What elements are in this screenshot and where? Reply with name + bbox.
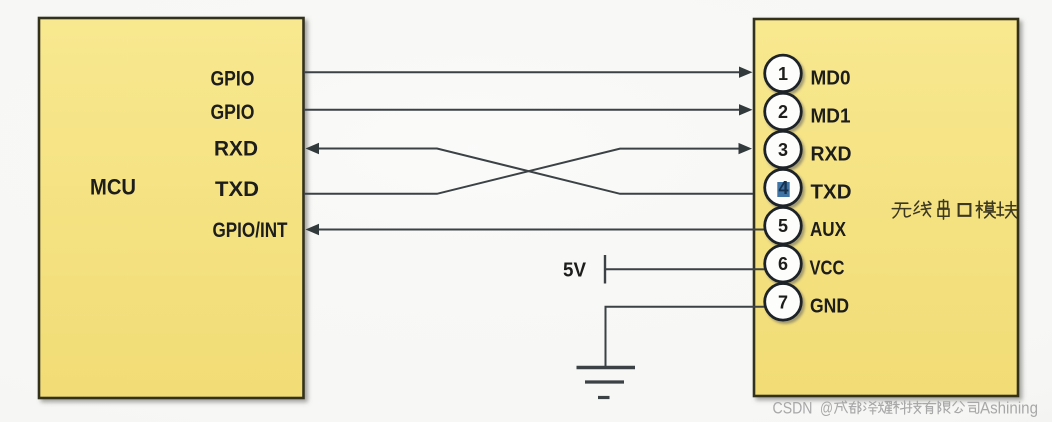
wire GPIO to MD0 xyxy=(304,67,753,78)
hanzi 泽 xyxy=(864,402,878,414)
pin 4 circle (digit shown text-selected blue) xyxy=(765,169,802,206)
svg-text:VCC: VCC xyxy=(810,257,845,279)
svg-text:3: 3 xyxy=(778,140,788,160)
svg-text:GPIO/INT: GPIO/INT xyxy=(213,219,288,242)
svg-text:TXD: TXD xyxy=(811,182,852,204)
svg-text:MD0: MD0 xyxy=(811,67,851,89)
svg-text:7: 7 xyxy=(778,292,788,312)
wire MCU TXD to module RXD (crossover) xyxy=(304,143,752,194)
module title 无线串口模块 (hand-drawn glyphs) xyxy=(892,200,1016,220)
svg-text:5: 5 xyxy=(778,216,788,236)
svg-text:AUX: AUX xyxy=(810,219,847,241)
pin 3 circle xyxy=(765,131,802,168)
svg-text:MD1: MD1 xyxy=(811,106,851,128)
wireless serial module block xyxy=(754,19,1018,396)
wire 5V to VCC xyxy=(605,268,765,270)
svg-text:Ashining: Ashining xyxy=(980,400,1038,418)
hanzi 耀 xyxy=(879,402,893,414)
hanzi 块 xyxy=(997,202,1017,218)
svg-text:4: 4 xyxy=(778,178,788,198)
svg-text:2: 2 xyxy=(778,102,788,122)
pin 1 circle xyxy=(765,55,802,92)
hanzi 司 xyxy=(968,402,979,413)
5V supply bar xyxy=(604,255,606,284)
svg-text:GPIO: GPIO xyxy=(211,101,255,124)
ground symbol xyxy=(577,368,636,398)
pin 7 circle xyxy=(765,284,802,321)
hanzi 都 xyxy=(849,401,861,414)
hanzi 技 xyxy=(908,401,922,413)
svg-text:GPIO: GPIO xyxy=(211,68,255,91)
watermark CSDN @... (gray) xyxy=(773,400,1039,418)
hanzi 成 xyxy=(835,401,848,413)
pin 2 circle xyxy=(765,93,802,130)
svg-text:6: 6 xyxy=(778,254,788,274)
hanzi 有 xyxy=(923,401,936,413)
hanzi 公 xyxy=(953,402,964,413)
hanzi 口 xyxy=(959,204,971,216)
svg-text:RXD: RXD xyxy=(214,138,258,161)
wire GPIO to MD1 xyxy=(304,104,753,115)
wire GND pin to ground xyxy=(606,307,766,368)
hanzi 无 xyxy=(892,203,910,218)
svg-text:CSDN: CSDN xyxy=(773,400,813,418)
svg-text:1: 1 xyxy=(778,64,788,84)
hanzi 限 xyxy=(938,401,950,414)
pin 5 circle xyxy=(765,207,802,244)
pin 6 circle xyxy=(765,245,802,282)
svg-text:GND: GND xyxy=(810,295,849,317)
hanzi 科 xyxy=(893,401,907,414)
svg-text:RXD: RXD xyxy=(811,144,852,166)
wire module TXD to MCU RXD (crossover) xyxy=(306,143,754,194)
wire module AUX to MCU GPIO/INT xyxy=(306,224,766,235)
hanzi 串 xyxy=(938,200,949,220)
watermark hanzi 成都泽耀科技有限公司 (hand-drawn glyphs) xyxy=(835,401,979,414)
MCU block xyxy=(39,18,304,398)
svg-text:5V: 5V xyxy=(563,260,587,282)
svg-text:@: @ xyxy=(820,400,833,418)
hanzi 线 xyxy=(914,201,931,217)
svg-text:TXD: TXD xyxy=(215,178,259,201)
svg-text:MCU: MCU xyxy=(90,175,136,200)
hanzi 模 xyxy=(976,201,995,218)
